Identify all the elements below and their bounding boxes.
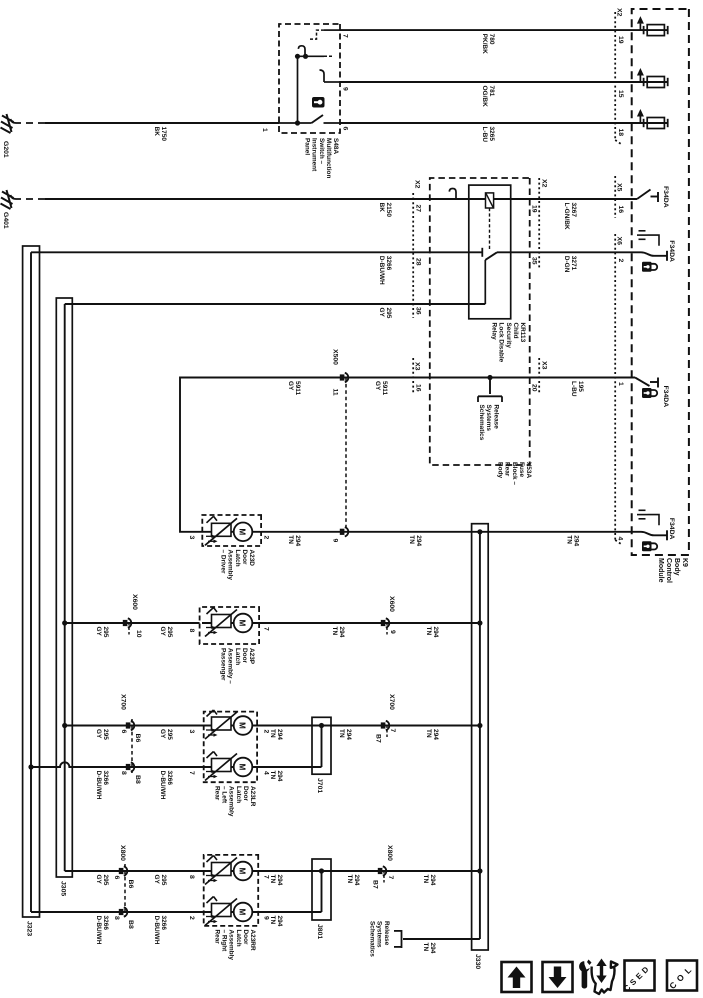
wire 294 TN left-rear column from J330 through X700-B7 and J701 to A23LR pin 2 (257, 725, 480, 727)
svg-text:5911: 5911 (294, 381, 301, 395)
svg-text:6: 6 (113, 876, 120, 880)
splice pack J505 rectangle (56, 298, 72, 877)
BCM connector X2 dotted line with pins 19 15 18 (614, 12, 616, 140)
wire 294 TN passenger column from J330 to A23P pin 7 (259, 622, 480, 624)
svg-text:GY: GY (153, 875, 160, 885)
svg-text:TN: TN (287, 535, 294, 544)
wire 1750 BK from S48A pin 1 to ground G201 (45, 122, 279, 124)
joint connector J801 rectangle (312, 859, 331, 920)
svg-text:9: 9 (342, 87, 349, 91)
svg-text:BK: BK (153, 127, 160, 137)
svg-text:GY: GY (159, 627, 166, 637)
svg-text:Schematics: Schematics (478, 405, 485, 441)
svg-text:28: 28 (415, 258, 422, 266)
inline connector X700 pins 6 B6 8 B8 dashed line (131, 719, 133, 773)
svg-text:B7: B7 (372, 880, 379, 889)
BCM connector X6 dotted line pins 2 1 4 (614, 234, 616, 540)
svg-text:J305: J305 (60, 881, 67, 896)
svg-text:J323: J323 (26, 921, 33, 936)
svg-text:Assembly: Assembly (228, 930, 235, 961)
svg-text:3265: 3265 (488, 127, 495, 142)
svg-text:11: 11 (332, 389, 339, 396)
svg-text:F34DA: F34DA (662, 386, 669, 408)
svg-text:294: 294 (429, 943, 436, 954)
svg-text:1750: 1750 (160, 127, 167, 142)
ground G201 (11, 119, 17, 123)
svg-text:TN: TN (338, 729, 345, 738)
svg-text:– Left: – Left (221, 786, 228, 804)
svg-text:Rear: Rear (214, 930, 221, 945)
svg-text:Systems: Systems (376, 921, 383, 948)
child security lock disable relay KR113 box (469, 185, 511, 319)
svg-text:1: 1 (617, 382, 624, 386)
S48A wire from lever to pin 1 exit (279, 122, 312, 124)
relay KR113 switch lever and contact (481, 248, 483, 257)
fuse block connector X2 right dotted line pins 19 35 (538, 178, 540, 270)
svg-text:4: 4 (617, 537, 624, 541)
svg-text:J701: J701 (316, 778, 323, 793)
driver door latch assembly A23D dashed box (202, 515, 261, 546)
svg-text:6: 6 (342, 127, 349, 131)
svg-text:294: 294 (573, 535, 580, 546)
svg-text:X53A: X53A (525, 462, 532, 478)
wire 294 TN from BCM pin 4 through J330 and X500-9 to A23D pin 2 (261, 531, 641, 533)
svg-text:M: M (238, 909, 247, 916)
svg-text:15: 15 (617, 90, 624, 98)
svg-text:3: 3 (188, 730, 195, 734)
left rear door latch assembly A23LR dashed box (204, 712, 257, 783)
svg-text:Multifunction: Multifunction (325, 138, 332, 178)
rear body fuse block X53A dashed box (430, 178, 530, 465)
svg-text:X700: X700 (388, 694, 395, 710)
inline connector X500 dashed line (345, 378, 347, 532)
splice pack J330 rectangle (472, 524, 489, 950)
svg-text:Body: Body (497, 462, 504, 479)
svg-text:TN: TN (422, 875, 429, 884)
svg-text:GY: GY (287, 381, 294, 391)
wire 3265 L-BU from BCM fuse X2-18 to S48A pin 6 (340, 122, 668, 124)
svg-text:3267: 3267 (570, 203, 577, 218)
navigation icon wrench with routing arrows (579, 959, 617, 995)
svg-text:9: 9 (263, 916, 270, 920)
svg-text:BK: BK (378, 203, 385, 213)
svg-text:TN: TN (422, 943, 429, 952)
BCM internal switch F34DA with lock at X6-2 (639, 230, 646, 232)
svg-text:Child: Child (512, 323, 519, 339)
connector X500 terminal pin 9 (340, 529, 345, 535)
svg-text:19: 19 (531, 205, 538, 213)
svg-text:X2: X2 (541, 179, 548, 188)
navigation icon scroll up (502, 962, 532, 992)
svg-text:2: 2 (188, 916, 195, 920)
svg-text:A23D: A23D (248, 550, 255, 567)
svg-text:A23LR: A23LR (249, 786, 256, 807)
svg-text:19: 19 (617, 36, 624, 44)
wire 3266 D-BU/WH right-rear column from A23RR pin 2 to splice J323 end (31, 911, 204, 913)
svg-text:Door: Door (241, 648, 248, 664)
svg-text:295: 295 (102, 875, 109, 886)
svg-text:294: 294 (345, 729, 352, 740)
svg-text:9: 9 (389, 630, 396, 634)
S48A internal hook contact (298, 46, 305, 57)
A23LR unlock latch mechanism and motor (202, 766, 261, 768)
svg-text:294: 294 (429, 875, 436, 886)
svg-text:7: 7 (263, 875, 270, 879)
splice pack J323 rectangle (23, 246, 40, 917)
svg-text:781: 781 (488, 86, 495, 97)
svg-text:Body: Body (673, 558, 680, 576)
svg-text:B8: B8 (127, 920, 134, 929)
splice J330 internal bus 294 TN (479, 532, 481, 939)
svg-text:X3: X3 (414, 362, 421, 371)
svg-text:GY: GY (159, 729, 166, 739)
svg-text:M: M (238, 528, 247, 535)
svg-text:294: 294 (432, 627, 439, 638)
svg-text:Fuse: Fuse (518, 462, 525, 477)
svg-text:Door: Door (241, 550, 248, 566)
passenger door latch assembly A23P dashed box (200, 607, 260, 644)
svg-text:Release: Release (493, 405, 500, 430)
wire 195 L-BU from BCM pin 1 through X3-20 into fuse block (wire G upper) (490, 377, 635, 379)
svg-text:M: M (238, 764, 247, 771)
A23P latch mechanism and motor (202, 622, 261, 624)
svg-text:X3: X3 (541, 361, 548, 370)
svg-text:Assembly –: Assembly – (227, 648, 234, 684)
wire 3267 L-GN/BK from BCM X5-16 down to relay (upper part of wire D) (494, 198, 637, 200)
svg-text:294: 294 (432, 729, 439, 740)
svg-text:294: 294 (276, 771, 283, 782)
svg-text:295: 295 (102, 729, 109, 740)
fuse block connector X3 right dotted line pin 20 (538, 358, 540, 394)
svg-text:M: M (238, 620, 247, 627)
svg-text:TN: TN (425, 627, 432, 636)
svg-text:G201: G201 (2, 141, 9, 158)
svg-text:F34DA: F34DA (668, 518, 675, 540)
svg-text:TN: TN (346, 875, 353, 884)
svg-text:Panel: Panel (304, 138, 311, 155)
wire 295 GY right-rear column from A23RR pin 8 to splice J505 end (65, 870, 204, 872)
inline connector X800 pins 6 B6 8 B8 dashed line (124, 864, 126, 917)
svg-text:7: 7 (342, 34, 349, 38)
svg-text:– Right: – Right (221, 930, 228, 953)
connector X500 terminal pin 11 (340, 374, 345, 380)
fuse F2 (circuit 781) in BCM (667, 78, 669, 86)
svg-text:7: 7 (389, 729, 396, 733)
J701 internal bus joining both 294 TN wires (321, 726, 323, 768)
svg-text:PK/BK: PK/BK (481, 34, 488, 55)
svg-text:2150: 2150 (385, 203, 392, 218)
S48A key icon (312, 97, 325, 108)
fuse block connector X2 left dotted line pins 27 28 36 (412, 193, 414, 318)
splice J323 internal bus 3266 D-BU/WH (30, 252, 32, 912)
svg-text:Lock Disable: Lock Disable (498, 323, 505, 363)
svg-text:M: M (238, 722, 247, 729)
svg-text:8: 8 (113, 916, 120, 920)
inline connector X600 pin 9 (381, 620, 386, 626)
svg-text:GY: GY (374, 381, 381, 391)
svg-text:Switch –: Switch – (318, 138, 325, 165)
wire 295 GY from relay pivot through X2-36 to splice J505 (65, 303, 486, 305)
svg-text:295: 295 (166, 627, 173, 638)
svg-text:A23RR: A23RR (249, 930, 256, 951)
svg-text:295: 295 (102, 627, 109, 638)
svg-text:D-BU/WH: D-BU/WH (378, 256, 385, 285)
svg-text:OG/BK: OG/BK (481, 86, 488, 108)
wire 295 GY left-rear column from A23LR pin 3 to splice J505 (65, 725, 204, 727)
svg-text:X2: X2 (414, 180, 421, 189)
svg-text:Relay: Relay (491, 323, 498, 341)
svg-text:Module: Module (657, 558, 664, 583)
svg-text:S48A: S48A (332, 138, 339, 154)
svg-text:7: 7 (188, 771, 195, 775)
svg-text:9: 9 (332, 539, 339, 543)
svg-text:3271: 3271 (570, 256, 577, 271)
svg-text:2: 2 (263, 536, 270, 540)
svg-text:294: 294 (415, 535, 422, 546)
svg-text:294: 294 (353, 875, 360, 886)
fuse F3 (circuit 3265) in BCM (667, 119, 669, 127)
svg-text:18: 18 (617, 129, 624, 137)
S48A door-lock switch lever pin 6 (324, 122, 341, 124)
svg-text:295: 295 (160, 875, 167, 886)
wire 781 OG/BK from BCM fuse X2-15 to S48A pin 9 (340, 81, 668, 83)
svg-text:Systems: Systems (485, 405, 492, 432)
navigation icon scroll down (543, 962, 573, 992)
svg-text:3266: 3266 (385, 256, 392, 271)
S48A internal jumper to pin6/1 wire (297, 56, 299, 123)
svg-text:Security: Security (505, 323, 512, 349)
svg-text:D-BU/WH: D-BU/WH (95, 771, 102, 800)
svg-text:Assembly: Assembly (227, 550, 234, 581)
svg-text:G401: G401 (2, 212, 9, 229)
svg-text:Passenger: Passenger (220, 648, 227, 681)
svg-text:295: 295 (166, 729, 173, 740)
svg-text:2: 2 (617, 259, 624, 263)
wire 780 PK/BK from BCM fuse X2-19 to S48A pin 7 (340, 29, 668, 31)
svg-text:Latch: Latch (234, 648, 241, 665)
svg-text:294: 294 (276, 875, 283, 886)
svg-text:– Driver: – Driver (220, 550, 227, 574)
svg-text:Release: Release (383, 921, 390, 946)
svg-text:2: 2 (263, 730, 270, 734)
svg-text:X800: X800 (386, 845, 393, 861)
S48A internal wiper contact for pin 7 (dashed) (324, 29, 340, 31)
wire 294 TN right-rear column from J330 through X800-B7 and J801 to A23RR pin 7 (258, 870, 480, 872)
svg-text:TN: TN (331, 627, 338, 636)
wire 294 TN from J701 to A23LR pin 4 (257, 766, 321, 768)
svg-text:GY: GY (95, 875, 102, 885)
svg-text:J330: J330 (474, 954, 481, 969)
svg-text:8: 8 (188, 875, 195, 879)
multifunction switch S48A dashed box (279, 24, 340, 133)
svg-text:L-GN/BK: L-GN/BK (563, 203, 570, 230)
BCM internal switch F34DA with lock at pin 4 (639, 509, 646, 511)
svg-text:4: 4 (263, 771, 270, 775)
wire 294 TN from J801 to A23RR pin 9 (258, 911, 321, 913)
svg-text:D-BU/WH: D-BU/WH (159, 771, 166, 800)
J801 internal bus joining both 294 TN wires (321, 871, 323, 912)
svg-text:KR113: KR113 (519, 323, 526, 343)
wire 2150 BK from relay coil through X2-27 to ground G401 (lower part of wire D) (45, 198, 486, 200)
svg-text:20: 20 (531, 384, 538, 392)
svg-text:195: 195 (577, 381, 584, 392)
svg-text:3266: 3266 (102, 916, 109, 931)
svg-text:Latch: Latch (235, 786, 242, 803)
svg-text:35: 35 (531, 257, 538, 265)
svg-text:J801: J801 (316, 924, 323, 939)
svg-text:B6: B6 (127, 880, 134, 889)
right rear door latch assembly A23RR dashed box (204, 855, 259, 926)
A23LR lock latch mechanism and motor (202, 725, 261, 727)
svg-text:780: 780 (488, 34, 495, 45)
svg-text:L-BU: L-BU (570, 381, 577, 397)
svg-text:TN: TN (565, 535, 572, 544)
A23RR lock latch mechanism and motor (202, 870, 261, 872)
svg-text:7: 7 (263, 627, 270, 631)
inline connector X800 pin 7 B7 (378, 868, 383, 874)
svg-text:3266: 3266 (102, 771, 109, 786)
svg-text:294: 294 (276, 916, 283, 927)
reference bracket Release Systems Schematics (X53A) (478, 395, 502, 397)
svg-text:Assembly: Assembly (228, 786, 235, 817)
BCM connector X5 dotted line pin 16 (614, 176, 616, 218)
wire 5911 GY from X3-16 through X500-11 down and across to A23D pin 3 (180, 378, 490, 532)
svg-text:X5: X5 (616, 183, 623, 192)
wire 295 GY passenger column from A23P pin 8 to splice J505 (65, 622, 200, 624)
svg-text:F34DA: F34DA (662, 186, 669, 208)
svg-text:3266: 3266 (160, 916, 167, 931)
S48A internal common bar with junction dots (324, 55, 332, 57)
svg-text:Door: Door (242, 930, 249, 946)
svg-text:294: 294 (294, 535, 301, 546)
svg-text:8: 8 (188, 629, 195, 633)
svg-text:TN: TN (425, 729, 432, 738)
svg-text:X500: X500 (332, 349, 339, 365)
joint connector J701 rectangle (312, 717, 331, 774)
S48A internal bent contact for pin 9 (324, 81, 340, 83)
svg-text:5911: 5911 (381, 381, 388, 395)
svg-text:X600: X600 (388, 596, 395, 612)
svg-text:TN: TN (408, 535, 415, 544)
svg-text:F34DA: F34DA (668, 240, 675, 262)
body control module K9 dashed box (632, 9, 689, 555)
wire 3271 D-GN from BCM X6-2 through X2-35 to relay switch (497, 251, 641, 253)
svg-text:8: 8 (120, 771, 127, 775)
svg-text:1: 1 (261, 128, 268, 132)
A23RR unlock latch mechanism and motor (202, 911, 261, 913)
svg-text:GY: GY (378, 308, 385, 318)
svg-text:D-GN: D-GN (563, 256, 570, 273)
svg-text:B7: B7 (375, 734, 382, 743)
svg-text:Control: Control (665, 558, 672, 583)
svg-text:295: 295 (385, 308, 392, 319)
svg-text:Latch: Latch (234, 550, 241, 567)
inline connector X700 pin 7 B7 (381, 722, 386, 728)
svg-text:Rear: Rear (504, 462, 511, 477)
svg-text:16: 16 (415, 384, 422, 392)
svg-text:Schematics: Schematics (368, 921, 375, 957)
svg-text:B6: B6 (134, 734, 141, 743)
wire 3266 D-BU/WH from relay contact through X2-28 to splice J323 (31, 251, 482, 253)
wire 294 TN from J330 end to Release Systems reference (403, 938, 480, 940)
svg-text:294: 294 (276, 729, 283, 740)
fuse F1 (circuit 780) in BCM (667, 26, 669, 34)
svg-text:M: M (238, 868, 247, 875)
svg-text:D-BU/WH: D-BU/WH (95, 916, 102, 945)
svg-text:10: 10 (135, 630, 142, 638)
svg-text:X700: X700 (120, 694, 127, 710)
fuse block connector X3 left dotted line pin 16 (412, 358, 414, 394)
svg-text:Latch: Latch (235, 930, 242, 947)
svg-text:16: 16 (617, 206, 624, 214)
svg-text:B8: B8 (134, 775, 141, 784)
svg-text:36: 36 (415, 307, 422, 315)
svg-text:A23P: A23P (248, 648, 255, 665)
svg-text:294: 294 (338, 627, 345, 638)
svg-text:Instrument: Instrument (311, 138, 318, 172)
svg-text:X800: X800 (119, 845, 126, 861)
BCM internal switch F34DA with lock at pin 1 (635, 378, 650, 387)
svg-text:6: 6 (120, 730, 127, 734)
svg-text:3: 3 (188, 536, 195, 540)
svg-text:Block –: Block – (511, 462, 518, 485)
svg-text:X2: X2 (616, 8, 623, 17)
navigation icon DESC (622, 961, 654, 994)
junction to Release Systems reference inside X53A (487, 375, 492, 380)
wire 3266 D-BU/WH left-rear column from A23LR pin 7 to splice J323 with hop over J505 bus (31, 762, 204, 767)
svg-text:3266: 3266 (166, 771, 173, 786)
relay KR113 coil (486, 193, 494, 208)
A23D latch mechanism and motor (202, 531, 261, 533)
svg-text:27: 27 (415, 205, 422, 213)
reference bracket Release Systems Schematics (rear) (401, 930, 403, 948)
inline connector X600 pin 10 (123, 620, 128, 626)
navigation icon LOC (667, 961, 697, 992)
svg-text:Door: Door (242, 786, 249, 802)
svg-text:D-BU/WH: D-BU/WH (153, 916, 160, 945)
svg-text:X6: X6 (616, 237, 623, 246)
ground G401 (11, 195, 17, 199)
svg-text:K9: K9 (681, 558, 688, 567)
svg-text:GY: GY (95, 729, 102, 739)
relay KR113 mechanical link (dashed) (489, 208, 491, 250)
svg-text:Rear: Rear (214, 786, 221, 801)
svg-text:X600: X600 (131, 594, 138, 610)
svg-text:7: 7 (387, 876, 394, 880)
terminal hook on wire D inside fuse block (449, 189, 456, 200)
BCM internal switch F34DA at X5-16 (637, 190, 651, 200)
svg-text:GY: GY (95, 627, 102, 637)
svg-text:L-BU: L-BU (481, 127, 488, 143)
splice J505 internal bus 295 GY (64, 304, 66, 871)
